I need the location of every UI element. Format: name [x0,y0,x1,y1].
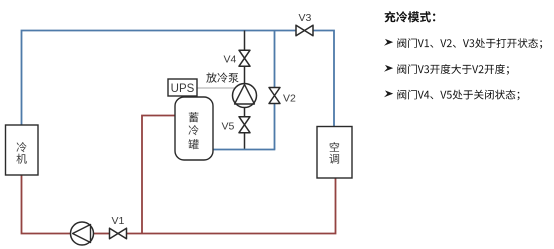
annotation heading 充冷模式： [385,11,436,22]
air conditioner box 空调 [317,127,352,179]
wire: red riser from bottom run up to tank left side (x=142) [142,116,175,234]
pump P1 (bottom circulation pump, triangle pointing left) [71,222,94,245]
wire: black branch riser through V4, pump, V5 (x=244.5) [244,31,246,151]
chiller box 冷机 [6,125,39,175]
valve V3 (horizontal, top header) [296,25,313,36]
bullet 2: 阀门V3开度大于V2开度； [384,64,509,75]
storage tank 蓄冷罐 [175,97,213,160]
svg-text:V2: V2 [283,93,296,105]
bullet 3: 阀门V4、V5处于关闭状态； [384,90,520,101]
UPS box [168,79,197,96]
wire: gray UPS control line to discharge pump [197,87,235,89]
wire: blue top run from V3 to air conditioner riser [313,31,334,127]
valve V2 (vertical, on blue riser) [269,88,280,104]
wire: blue run from tank right side to V2 riser (y=149.5) [213,149,275,151]
wire: red return from chiller bottom to pump P1 [22,175,71,234]
valve V1 (horizontal, bottom run) [110,228,127,239]
svg-text:V5: V5 [222,121,235,133]
svg-text:V4: V4 [224,54,237,66]
valve V4 (vertical, above discharge pump) [239,50,250,66]
svg-text:UPS: UPS [171,83,195,95]
pump P2 discharge pump (triangle pointing up) [233,84,257,108]
valve V5 (vertical, below discharge pump) [239,117,250,133]
svg-text:V1: V1 [112,215,125,227]
label V2 [283,93,296,105]
label V5 [222,121,235,133]
label V1 [112,215,125,227]
wire: red run pump P1 to valve V1 [94,233,110,235]
bullet 1: 阀门V1、V2、V3处于打开状态； [384,38,542,49]
wire: blue branch riser through V2 (x=274.5) [274,31,276,150]
label V4 [224,54,237,66]
wire: red bottom run V1 to air conditioner riser [127,178,336,234]
svg-text:V3: V3 [299,12,312,24]
label 放冷泵 (discharge pump) [206,73,238,83]
wire: chilled supply header (blue), chiller top-left riser and top run to V3 [22,31,297,126]
label V3 [299,12,312,24]
